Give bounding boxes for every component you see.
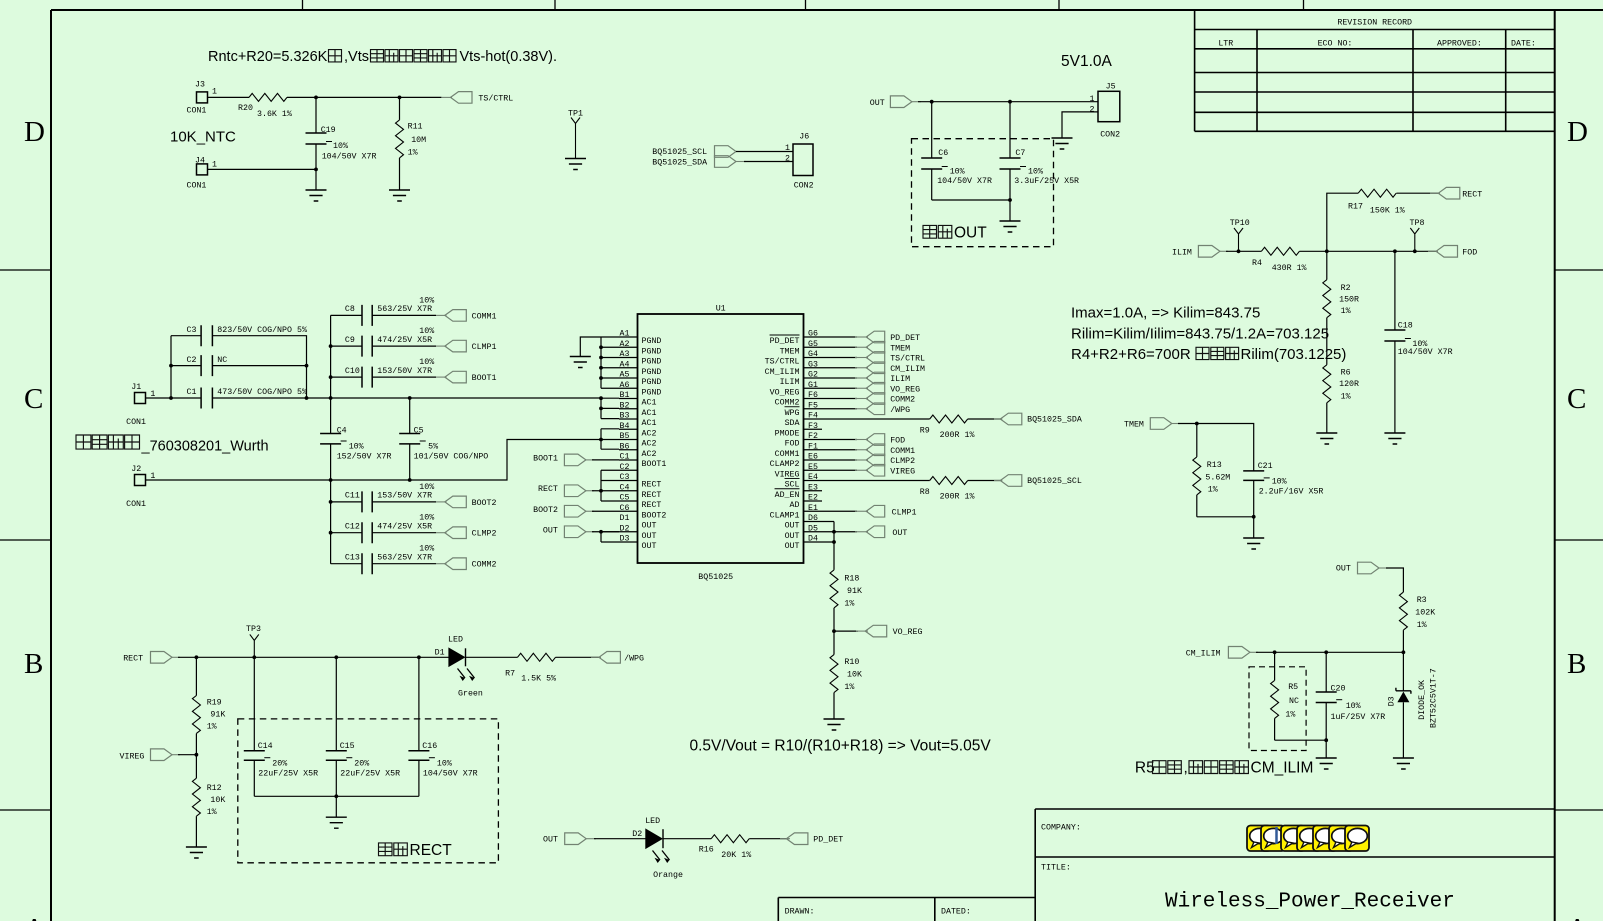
junction R5 [1273,650,1277,654]
svg-text:104/50V X7R: 104/50V X7R [322,152,377,162]
svg-text:B1: B1 [620,391,630,400]
junction C19 bottom [314,168,318,172]
svg-text:BOOT2: BOOT2 [472,499,497,508]
svg-text:RECT: RECT [123,654,143,663]
svg-text:A6: A6 [620,381,630,390]
svg-text:PD_DET: PD_DET [813,836,843,845]
svg-text:D: D [24,116,45,148]
svg-text:Rilim=Kilim/Iilim=843.75/1.2A=: Rilim=Kilim/Iilim=843.75/1.2A=703.125 [1071,326,1329,343]
svg-text:C11: C11 [345,492,360,501]
junction PGND bus [599,356,603,360]
svg-text:WPG: WPG [785,409,800,418]
wire J4 to C19 [208,168,317,170]
junction C9 row [329,344,333,348]
net flag TS/CTRL [855,352,925,364]
pin G5 lead [780,340,822,357]
svg-text:BZT52C5V1T-7: BZT52C5V1T-7 [1430,668,1439,728]
svg-text:A3: A3 [620,350,630,359]
svg-text:10%: 10% [349,443,364,452]
pin F4 lead [785,412,822,429]
capacitor C21 [1243,462,1323,517]
svg-text:10K_NTC: 10K_NTC [170,129,236,146]
net flag BQ51025_SDA [994,413,1082,425]
wire RECT bus [601,470,619,501]
svg-text:C4: C4 [337,427,347,436]
junction C12 row [329,531,333,535]
svg-text:/WPG: /WPG [890,405,910,415]
capacitor C2 [187,355,228,376]
pin C6 lead [619,504,666,521]
svg-text:J6: J6 [799,133,809,142]
net flag BOOT1 left [533,454,594,466]
svg-text:R11: R11 [408,123,423,132]
pin D5 lead [785,524,822,541]
company emoji stickers [1247,826,1369,852]
svg-text:D2: D2 [620,524,630,533]
pin D6 lead [785,514,822,531]
svg-text:D5: D5 [808,524,818,533]
svg-text:U1: U1 [716,305,726,314]
net flag OUT bottom [543,833,596,845]
junction TP8 [1413,249,1417,253]
ground R11 [389,190,410,201]
svg-text:R4+R2+R6=700R: R4+R2+R6=700R [1071,346,1191,363]
capacitor C3 [187,325,307,346]
connector J2 [126,465,155,509]
net flag RECT left [538,485,594,497]
svg-text:COMM1: COMM1 [890,447,915,456]
svg-text:C3: C3 [187,326,197,335]
svg-text:E6: E6 [808,453,818,462]
svg-text:COMM2: COMM2 [472,561,497,570]
svg-text:10%: 10% [950,168,965,177]
junction D3 [1402,650,1406,654]
junction C18 top [1393,249,1397,253]
svg-text:BQ51025_SCL: BQ51025_SCL [652,148,707,157]
label coil [76,435,269,455]
svg-text:C16: C16 [422,742,437,751]
svg-text:J5: J5 [1106,82,1116,91]
svg-text:R2: R2 [1341,284,1351,293]
pin A1 lead [619,330,661,347]
svg-text:OUT: OUT [785,522,800,531]
svg-text:B3: B3 [620,412,630,421]
wire D2 to R16 [663,838,711,840]
wire CM_ILIM pin to flag [822,367,857,369]
pin E3 lead [775,483,822,500]
svg-text:10%: 10% [419,483,434,492]
resistor R16 [699,835,751,860]
svg-text:1%: 1% [207,723,217,732]
pin F2 lead [785,432,822,449]
svg-text:2: 2 [1090,106,1095,115]
wire J2 to chip AC2 [146,440,602,481]
svg-text:E4: E4 [808,473,818,482]
junction C4 top [329,396,333,400]
ground J5 [1052,138,1073,149]
svg-text:120R: 120R [1339,380,1359,389]
svg-text:RECT: RECT [538,485,558,494]
note text Imax [1071,305,1346,364]
svg-text:C21: C21 [1258,462,1273,471]
capacitor C12 [331,514,436,544]
svg-text:10%: 10% [419,358,434,367]
wire C7 to ground [1009,200,1011,221]
pin G6 lead [770,330,822,347]
net flag BOOT2 (cap bank) [436,496,497,508]
svg-text:A5: A5 [620,371,630,380]
svg-text:150R: 150R [1339,296,1359,305]
svg-text:RECT: RECT [642,491,662,500]
svg-text:APPROVED:: APPROVED: [1437,40,1482,49]
svg-text:22uF/25V X5R: 22uF/25V X5R [340,768,400,778]
svg-text:10%: 10% [419,296,434,305]
resistor R20 [238,93,292,119]
wire J5 pin2 to ground [1062,112,1098,138]
pin G2 lead [780,371,822,388]
svg-text:101/50V COG/NPO: 101/50V COG/NPO [414,452,489,462]
svg-text:CLMP1: CLMP1 [892,508,917,517]
wire R16 to PD_DET flag [749,838,788,840]
svg-text:B4: B4 [620,422,630,431]
svg-text:VIREG: VIREG [890,467,915,476]
svg-text:TITLE:: TITLE: [1041,864,1071,873]
svg-text:CM_ILIM: CM_ILIM [890,365,925,374]
svg-text:823/50V COG/NPO 5%: 823/50V COG/NPO 5% [217,325,307,335]
svg-text:A1: A1 [620,330,630,339]
svg-text:G5: G5 [808,340,818,349]
dashed box R5 [1249,667,1306,751]
svg-text:10K: 10K [210,796,225,805]
wire R8 to flag [968,480,1002,482]
svg-text:20K 1%: 20K 1% [721,851,751,860]
svg-text:BQ51025_SCL: BQ51025_SCL [1027,477,1082,486]
wire ILIM pin to flag [822,377,857,379]
ground chip PGND [570,357,591,368]
wire CLMP1 pin [822,510,857,512]
net flag OUT right [855,526,907,538]
wire OUT D6-D4 bus to R18 [822,522,834,570]
svg-text:A2: A2 [620,340,630,349]
svg-text:OUT: OUT [543,526,558,535]
svg-text:ILIM: ILIM [890,375,910,384]
resistor R13 [1193,424,1231,517]
junction PGND bus [599,345,603,349]
revision record table [1195,10,1555,131]
drawn/dated box [778,898,1035,921]
svg-text:C1: C1 [620,453,630,462]
svg-text:474/25V X5R: 474/25V X5R [377,522,432,532]
pin G1 lead [770,381,822,398]
pin E4 lead [785,473,822,490]
wire TMEM pin to flag [822,346,857,348]
junction C21 bottom [1252,515,1256,519]
wire R2 to R6 [1326,318,1328,365]
net flag VO_REG [855,382,920,394]
svg-text:563/25V X7R: 563/25V X7R [377,553,432,563]
capacitor C5 [399,398,488,480]
svg-text:OUT: OUT [642,532,657,541]
svg-text:Rilim(703.1225): Rilim(703.1225) [1241,346,1347,363]
svg-text:F3: F3 [808,422,818,431]
svg-text:AC2: AC2 [642,440,657,449]
svg-text:B: B [1567,648,1586,680]
svg-text:TMEM: TMEM [1124,420,1144,429]
zone divider lines right [1555,270,1603,810]
net flag BOOT1 (cap bank) [436,371,497,383]
svg-text:_760308201_Wurth: _760308201_Wurth [141,439,269,455]
wire CLMP2 pin to flag [822,459,857,461]
net flag CLMP2 (cap bank) [436,527,497,539]
capacitor C11 [331,483,436,513]
wire RECT flag to chip [592,490,601,492]
svg-text:FOD: FOD [1462,248,1477,257]
svg-text:R19: R19 [207,699,222,708]
svg-text:D4: D4 [808,535,818,544]
pin F6 lead [775,391,822,408]
svg-text:G3: G3 [808,360,818,369]
note text R5 reserve [1135,760,1313,777]
svg-text:FOD: FOD [890,437,905,446]
svg-text:Green: Green [458,690,483,699]
svg-text:1.5K 5%: 1.5K 5% [521,675,556,684]
svg-text:R4: R4 [1252,259,1262,268]
svg-text:1%: 1% [1285,711,1295,720]
svg-text:CLMP2: CLMP2 [890,457,915,466]
junction C5 top [408,396,412,400]
wire J3 to R20 [208,96,250,98]
junction R13 top [1195,422,1199,426]
wire VIREG pin to flag [822,469,857,471]
wire /WPG pin to flag [822,408,857,410]
wire R7 to WPG flag [556,656,599,658]
junction R2 node [1325,249,1329,253]
svg-text:R5: R5 [1135,760,1155,777]
test point TP1 [568,110,583,159]
wire R9 to flag [968,418,1002,420]
net flag CLMP1 [855,505,917,517]
svg-text:CON1: CON1 [187,107,207,116]
wire R17 branch [1327,193,1358,251]
pin C2 lead [619,463,638,472]
svg-text:3.3uF/25V X5R: 3.3uF/25V X5R [1014,176,1079,186]
pin B3 lead [619,412,656,429]
svg-text:1%: 1% [844,683,854,692]
svg-text:C20: C20 [1331,685,1346,694]
svg-text:10%: 10% [1346,702,1361,711]
capacitor C9 [331,327,436,357]
pin A3 lead [619,350,661,367]
svg-text:COMM2: COMM2 [890,396,915,405]
ic U1 BQ51025 body [638,314,804,563]
connector J1 [126,383,155,427]
svg-text:RECT: RECT [410,842,453,859]
net flag CLMP2 [855,454,915,466]
label near RECT [379,842,453,859]
wire OUT D5 pin to flag [822,531,857,533]
svg-text:CLMP2: CLMP2 [472,530,497,539]
wire COMM2 pin to flag [822,398,857,400]
wire PD_DET pin to flag [822,336,857,338]
svg-text:Rntc+R20=5.326K: Rntc+R20=5.326K [208,49,328,65]
wire D1 to R7 [466,656,518,658]
svg-text:473/50V COG/NPO 5%: 473/50V COG/NPO 5% [217,387,307,397]
svg-text:AD_EN: AD_EN [775,491,800,500]
wire C2 row right [212,365,306,367]
junction C7 top [1008,100,1012,104]
wire VO_REG pin to flag [822,387,857,389]
svg-text:1%: 1% [844,599,854,608]
junction C15 bottom [334,794,338,798]
resistor R5 [1271,652,1299,740]
svg-text:R13: R13 [1207,461,1222,470]
net flag VIREG [855,464,915,476]
svg-text:CLAMP1: CLAMP1 [770,511,800,520]
resistor R10 [830,655,862,693]
svg-text:C: C [1567,383,1586,415]
resistor R17 [1348,189,1405,215]
pin A2 lead [619,340,661,357]
svg-text:ILIM: ILIM [1172,248,1192,257]
svg-text:C12: C12 [345,523,360,532]
svg-text:LED: LED [645,817,660,826]
junction C20 [1324,650,1328,654]
svg-text:D1: D1 [435,649,445,658]
svg-text:TMEM: TMEM [890,344,910,353]
pin A6 lead [619,381,661,398]
svg-text:CON1: CON1 [187,182,207,191]
wire R10 to ground [833,693,835,719]
svg-text:G1: G1 [808,381,818,390]
svg-text:OUT: OUT [892,529,907,538]
svg-text:AC2: AC2 [642,429,657,438]
svg-text:C14: C14 [258,742,273,751]
pin G3 lead [765,360,822,377]
net flag ILIM [855,372,910,384]
wire SCL to J6 pin1 [736,151,793,153]
svg-text:TS/CTRL: TS/CTRL [765,357,800,367]
svg-text:C1: C1 [187,388,197,397]
net flag RECT bottom [123,652,180,664]
svg-text:10%: 10% [1028,168,1043,177]
junction C10 row [329,375,333,379]
junction C16 [417,655,421,659]
svg-text:C: C [24,383,43,415]
svg-text:5.62M: 5.62M [1205,473,1230,482]
svg-text:R12: R12 [207,784,222,793]
junction C11 row [329,500,333,504]
sheet zone tick marks top [303,0,1304,10]
junction C4 bottom [329,478,333,482]
svg-text:SDA: SDA [785,419,800,428]
net flag TS/CTRL [441,92,513,104]
wire R13 to C21 bottom [1197,516,1254,518]
net flag BQ51025_SCL [994,475,1082,487]
svg-text:/WPG: /WPG [624,654,644,664]
svg-text:G2: G2 [808,371,818,380]
svg-text:D6: D6 [808,514,818,523]
svg-text:0.5V/Vout = R10/(R10+R18) =>: 0.5V/Vout = R10/(R10+R18) => Vout=5.05V [690,738,992,755]
pin B2 lead [619,401,656,418]
svg-text:R3: R3 [1417,596,1427,605]
net flag BOOT2 left [533,505,594,517]
junction OUT D5 [832,530,836,534]
svg-text:10%: 10% [419,545,434,554]
junction RECT C4 [599,489,603,493]
svg-text:2.2uF/16V X5R: 2.2uF/16V X5R [1259,487,1324,497]
wire SDA to R9 [822,418,930,420]
junction chip AC1 bus [599,396,603,400]
wire OUT flag to chip D2 [592,531,619,533]
resistor R4 [1252,247,1307,273]
svg-text:OUT: OUT [642,542,657,551]
svg-text:OUT: OUT [785,542,800,551]
svg-text:CON2: CON2 [1100,131,1120,140]
svg-text:C9: C9 [345,336,355,345]
wire R3 to node [1402,630,1404,652]
pin F3 lead [775,422,822,439]
resistor R11 [396,97,427,190]
wire SCL to R8 [822,480,930,482]
svg-text:1%: 1% [1417,621,1427,630]
connector J4 [187,157,218,191]
pin D2 lead [619,524,656,541]
net flag CM_ILIM [1186,647,1258,659]
wire C3 row left [171,335,201,337]
pin D1 lead [620,514,657,531]
wire SDA to J6 pin2 [736,161,793,163]
svg-text:AC2: AC2 [642,450,657,459]
svg-text:CM_ILIM: CM_ILIM [1251,760,1314,777]
svg-text:AD: AD [790,501,800,510]
ground C15 [326,817,347,828]
junction TP3/C14 [252,655,256,659]
net flag COMM1 (cap bank) [436,310,497,322]
junction TP10 [1237,249,1241,253]
svg-text:OUT: OUT [1336,565,1351,574]
svg-text:C2: C2 [187,356,197,365]
resistor R3 [1399,592,1435,630]
svg-text:BOOT2: BOOT2 [533,506,558,515]
svg-text:1%: 1% [408,149,418,158]
svg-text:RECT: RECT [642,501,662,510]
svg-text:J1: J1 [131,383,141,392]
pin E1 lead [770,504,822,521]
svg-text:150K 1%: 150K 1% [1370,207,1405,216]
capacitor C20 [1316,652,1386,740]
svg-text:C3: C3 [620,473,630,482]
svg-text:VO_REG: VO_REG [890,385,920,394]
svg-text:TS/CTRL: TS/CTRL [890,354,925,364]
svg-text:BOOT1: BOOT1 [642,460,667,469]
led D2 [632,817,683,880]
svg-text:LED: LED [448,636,463,645]
svg-text:C15: C15 [340,742,355,751]
svg-text:104/50V X7R: 104/50V X7R [937,176,992,186]
wire FOD pin to flag [822,439,857,441]
capacitor C13 [331,545,436,575]
net flag COMM2 (cap bank) [436,558,497,570]
pin C3 lead [619,473,661,490]
svg-text:ECO NO:: ECO NO: [1318,40,1353,49]
svg-text:J2: J2 [131,465,141,474]
wire R18 to R10 [833,608,835,655]
svg-text:430R 1%: 430R 1% [1272,264,1307,273]
svg-text:20%: 20% [354,760,369,769]
resistor R7 [505,653,556,683]
svg-text:DATE:: DATE: [1511,40,1536,49]
wire CM_ILIM node [1256,651,1403,653]
